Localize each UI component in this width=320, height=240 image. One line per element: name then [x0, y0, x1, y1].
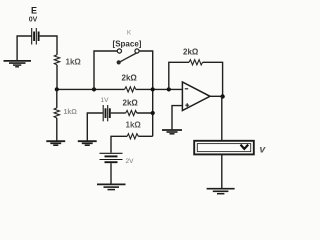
- node feedback tap junction: [167, 87, 171, 91]
- wire row3 left to battery: [111, 136, 127, 152]
- resistor R3 2k (row1 horizontal): [125, 87, 136, 92]
- op-amp plus sign: [185, 103, 189, 107]
- node bus row1 junction: [151, 87, 155, 91]
- ground (op-amp plus input): [162, 130, 182, 134]
- resistor R5 1k (row3 horizontal): [127, 134, 138, 139]
- wire switch branch riser: [94, 51, 117, 89]
- svg-text:K: K: [127, 30, 132, 37]
- svg-text:2kΩ: 2kΩ: [183, 48, 199, 57]
- wire row1 right of R3: [136, 88, 183, 90]
- svg-text:2kΩ: 2kΩ: [123, 99, 139, 108]
- node bus row2 junction: [151, 111, 155, 115]
- wire battery 2V to ground: [110, 163, 112, 184]
- switch K terminal right: [135, 49, 139, 53]
- resistor R1 1k (vertical): [54, 55, 59, 65]
- wire feedback riser: [169, 62, 189, 89]
- battery 2V: [100, 153, 123, 162]
- svg-text:1kΩ: 1kΩ: [64, 109, 78, 116]
- wire R2 top lead: [56, 89, 58, 108]
- wire R2 bottom lead: [56, 118, 58, 141]
- switch K lever: [120, 53, 137, 62]
- voltmeter inner display: [197, 144, 250, 152]
- battery E (source): [32, 28, 39, 45]
- battery 1V: [103, 105, 110, 121]
- wire row2 left branch: [87, 113, 103, 141]
- svg-text:[Space]: [Space]: [113, 40, 142, 49]
- svg-text:1kΩ: 1kΩ: [126, 121, 142, 130]
- svg-text:2kΩ: 2kΩ: [122, 74, 138, 83]
- wire R1 bottom to node A: [56, 65, 58, 90]
- svg-text:1kΩ: 1kΩ: [66, 58, 82, 67]
- svg-text:E: E: [31, 6, 37, 16]
- wire row2 right: [137, 112, 153, 114]
- node switch-tap junction: [92, 87, 96, 91]
- wire switch right to bus: [139, 51, 153, 136]
- svg-text:0V: 0V: [29, 17, 38, 24]
- node output junction: [220, 94, 224, 98]
- node A junction: [55, 87, 59, 91]
- wire voltmeter to ground: [221, 155, 223, 188]
- wire row3 from bus: [138, 135, 152, 137]
- wire op-amp plus input: [172, 106, 182, 130]
- ground (below voltmeter): [207, 189, 235, 194]
- op-amp minus sign: [185, 88, 188, 90]
- svg-text:1V: 1V: [101, 97, 110, 104]
- wire op-amp output: [210, 95, 223, 97]
- op-amp U1: [182, 82, 210, 111]
- voltmeter check icon: [241, 145, 249, 149]
- ground (below R2): [46, 141, 65, 145]
- ground (below E source): [4, 61, 32, 67]
- resistor R6 2k (feedback): [189, 60, 203, 65]
- svg-text:2V: 2V: [126, 158, 135, 165]
- resistor R4 2k (row2 horizontal): [126, 110, 137, 115]
- ground (below 2V battery): [97, 184, 126, 189]
- ground (row2 branch): [78, 141, 97, 145]
- switch K terminal left: [117, 49, 121, 53]
- wire output to voltmeter: [221, 97, 223, 141]
- wire E left lead: [17, 36, 32, 60]
- wire E right lead to corner and down: [40, 36, 57, 55]
- wire row1 node A segment: [57, 88, 125, 90]
- voltmeter M1 body: [194, 141, 254, 155]
- wire feedback right to output: [203, 62, 223, 96]
- resistor R2 1k (vertical): [54, 108, 59, 118]
- switch K lever knob: [117, 60, 121, 64]
- wire row2 mid: [111, 112, 126, 114]
